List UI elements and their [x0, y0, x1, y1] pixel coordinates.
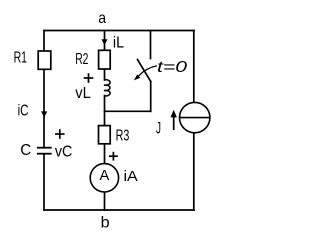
plus sign vC	[55, 129, 65, 139]
wire top horizontal a-node	[44, 30, 194, 32]
resistor R1	[38, 51, 51, 69]
wire bottom horizontal b-node	[44, 209, 194, 211]
ammeter A circle	[90, 164, 118, 192]
svg-text:J: J	[156, 119, 161, 138]
svg-text:a: a	[98, 10, 106, 27]
current arrow iL	[102, 39, 108, 45]
svg-text:R2: R2	[75, 51, 88, 68]
wire middle R3-to-ammeter	[104, 144, 106, 164]
resistor R3	[99, 126, 111, 144]
svg-text:iA: iA	[124, 168, 138, 185]
wire switch lower terminal	[150, 82, 152, 112]
wire left bottom segment	[43, 154, 45, 210]
current source J circle	[180, 102, 210, 132]
svg-text:t=0: t=0	[157, 59, 187, 76]
wire middle inductor-to-R3	[104, 96, 106, 126]
wire middle top segment	[104, 31, 106, 51]
wire switch upper terminal	[150, 31, 152, 59]
wire right top segment	[193, 31, 195, 103]
resistor R2	[99, 50, 111, 69]
switch action curved arrow t=0	[134, 66, 157, 81]
capacitor C plates	[37, 148, 52, 154]
current source J direction arrow	[171, 110, 177, 130]
switch blade open	[138, 60, 151, 82]
svg-text:iL: iL	[113, 34, 124, 51]
wire middle R2-to-inductor	[104, 69, 106, 80]
wire left top segment	[43, 31, 45, 52]
plus sign vL	[84, 73, 94, 83]
wire right bottom segment	[193, 133, 195, 210]
svg-text:vC: vC	[55, 143, 73, 160]
inductor L coil	[104, 80, 110, 96]
current source J diameter bar	[180, 117, 210, 119]
plus sign iA	[109, 152, 118, 161]
svg-text:R1: R1	[14, 50, 27, 67]
svg-text:iC: iC	[18, 103, 29, 120]
current arrow iC	[41, 111, 47, 117]
svg-text:R3: R3	[116, 128, 130, 145]
wire middle ammeter-to-bottom	[104, 192, 106, 210]
svg-text:C: C	[20, 142, 31, 159]
svg-text:A: A	[100, 167, 110, 184]
svg-text:vL: vL	[75, 85, 91, 102]
wire left middle segment	[43, 69, 45, 147]
wire junction horizontal to switch	[105, 110, 151, 112]
svg-text:b: b	[101, 214, 110, 231]
